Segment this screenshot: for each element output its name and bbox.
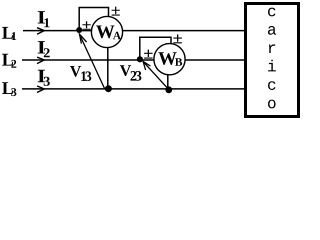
wattmeter WA (circle) [91, 16, 122, 47]
node: junction dot on L2 at WB voltage tap [137, 56, 143, 62]
label V13 [70, 66, 91, 81]
label I1 [38, 11, 50, 27]
label L1 [2, 27, 16, 40]
current arrowhead I2 on L2 [37, 57, 44, 64]
wire L1 line [23, 30, 246, 32]
node: junction dot on L1 at WA voltage tap [76, 27, 82, 33]
current arrowhead I1 on L1 [37, 28, 44, 35]
current arrowhead I3 on L3 [37, 86, 44, 93]
wattmeter WB (circle) [154, 44, 185, 75]
wire: WA bottom lead down to L3 [107, 47, 109, 89]
load box (carico) [246, 4, 299, 117]
polarity mark ± at WB top terminal [173, 34, 182, 43]
label V23 [120, 65, 141, 80]
label L3 [2, 82, 16, 96]
label L2 [2, 54, 16, 68]
wire L3 line [22, 88, 246, 90]
node: junction dot on L3 below WA [105, 85, 112, 92]
label I3 [38, 70, 50, 86]
voltage arrow V23 (from L3 node pointing to L2 node) [143, 62, 169, 90]
voltage arrow V13 (from L3 node pointing to L1 node) [79, 34, 104, 89]
label WB [158, 52, 182, 66]
wire L2 line [22, 59, 246, 61]
polarity mark ± at WA top terminal [112, 7, 120, 16]
label I2 [38, 41, 50, 57]
node: junction dot on L3 below WB [165, 86, 172, 93]
wire: WB bottom lead down to L3 [167, 75, 169, 91]
wire: voltage tap bracket of wattmeter B (from L2 node up over to WB top) [140, 37, 171, 58]
label carico (vertical letters) [268, 8, 276, 109]
wire: voltage tap bracket of wattmeter A (from L1 node up over to WA top) [79, 8, 108, 30]
label WA [96, 26, 121, 40]
polarity mark ± at WB left terminal [144, 50, 153, 59]
polarity mark ± at WA left terminal [82, 21, 90, 30]
